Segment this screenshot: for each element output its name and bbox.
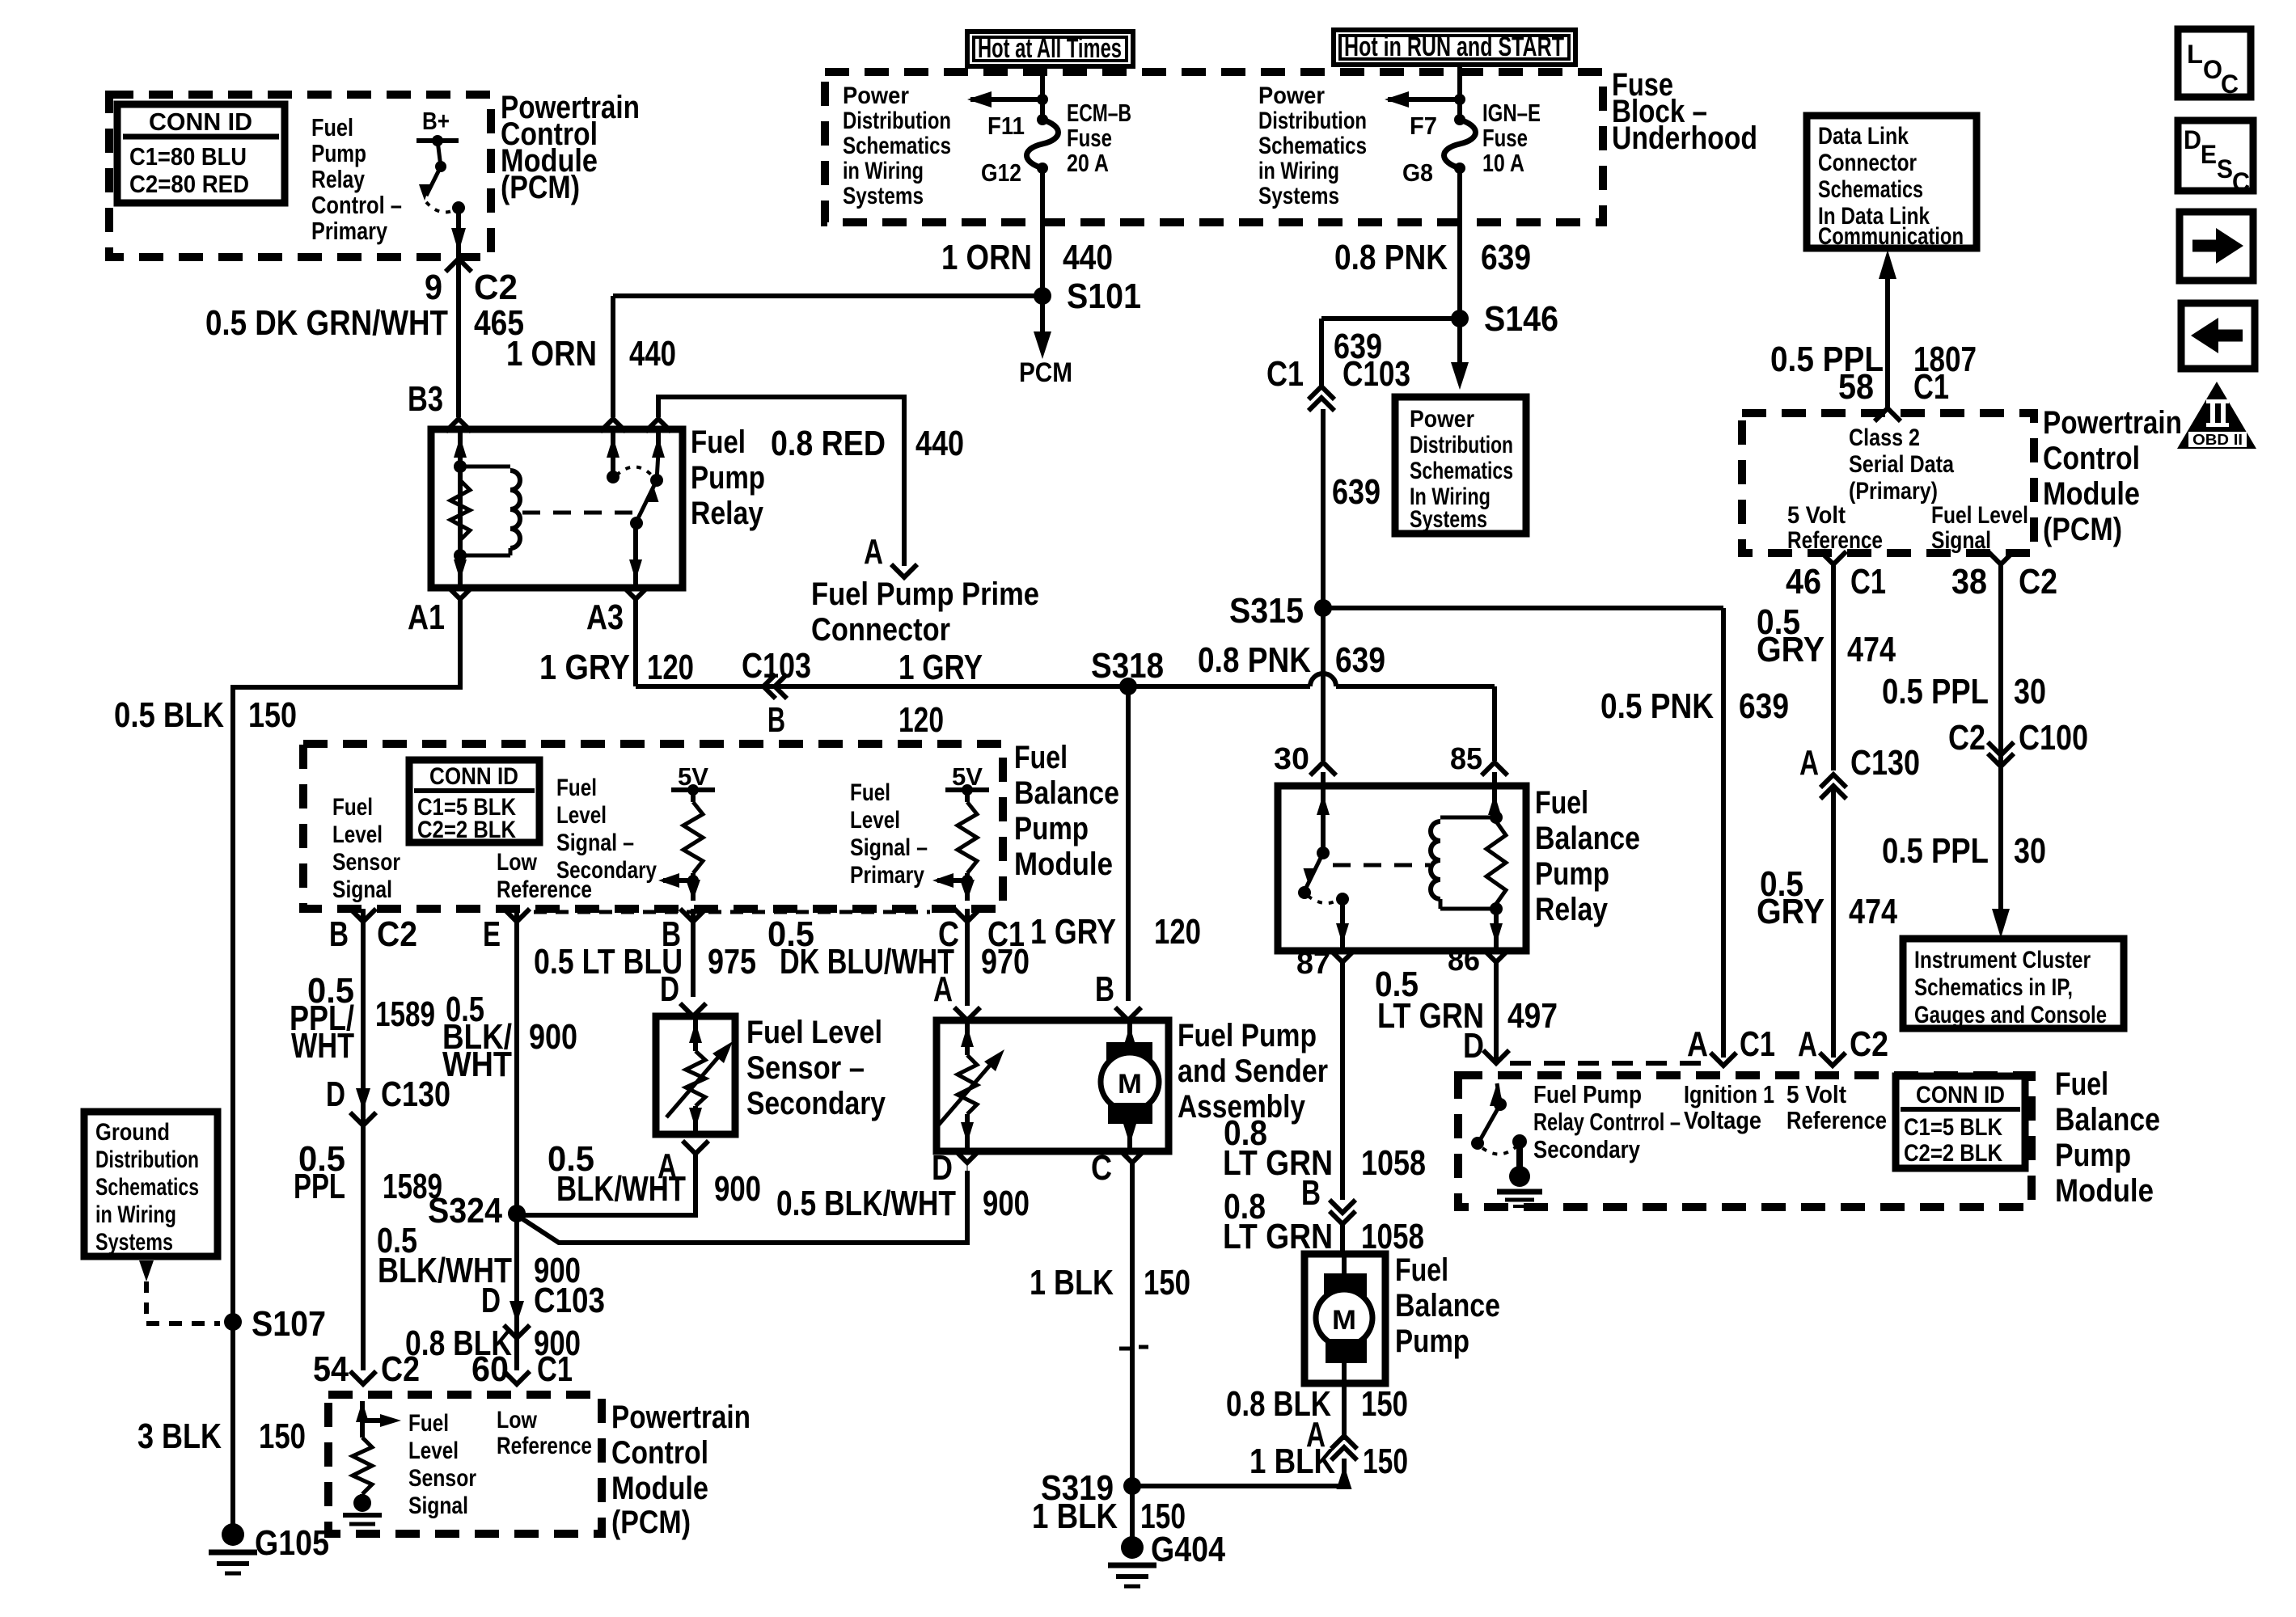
svg-text:Sensor –: Sensor – [746,1050,865,1086]
svg-text:D: D [2184,125,2201,154]
svg-text:O: O [2203,55,2222,84]
svg-text:3 BLK: 3 BLK [137,1416,222,1456]
balance relay pin 85 wire [1482,762,1507,775]
svg-text:D: D [1463,1026,1484,1066]
svg-text:DK BLU/WHT: DK BLU/WHT [780,942,954,982]
Ground Distribution Schematics reference box [84,1112,218,1256]
svg-text:(PCM): (PCM) [2043,512,2122,547]
svg-text:58: 58 [1838,367,1874,407]
wire A3 1 GRY 120 long horizontal [633,599,638,686]
balance relay switch [1317,794,1330,815]
svg-text:Distribution: Distribution [1410,432,1513,458]
svg-text:S146: S146 [1484,299,1558,339]
svg-text:Fuel Pump: Fuel Pump [1178,1018,1317,1053]
relay pin labels A1 A3 [447,586,473,599]
svg-text:C130: C130 [381,1074,450,1114]
svg-text:Control –: Control – [311,191,402,219]
svg-text:440: 440 [629,334,676,374]
right PCM dashed box [1742,413,2034,553]
svg-text:86: 86 [1448,944,1480,977]
svg-text:5 Volt: 5 Volt [1787,502,1846,529]
svg-text:150: 150 [259,1416,306,1456]
svg-text:D: D [932,1148,953,1188]
inline connector A on 150 wire [1331,1447,1357,1460]
svg-text:Reference: Reference [1787,527,1883,554]
svg-text:Primary: Primary [850,862,924,889]
svg-text:S: S [2217,154,2233,184]
wire 86 0.5 LT GRN 497 to module pin D [1494,962,1499,1062]
svg-text:B: B [1095,969,1114,1009]
wire S315 right to 0.5 PNK 639 drop [1323,606,1723,610]
sender C1 dashed boundary [534,910,930,914]
svg-text:474: 474 [1847,630,1896,669]
svg-text:900: 900 [983,1184,1030,1223]
svg-text:Reference: Reference [497,1433,592,1459]
svg-text:Power: Power [1410,406,1474,433]
svg-text:C100: C100 [2019,718,2088,758]
svg-text:A: A [1798,1024,1817,1064]
svg-text:Schematics: Schematics [1258,133,1367,159]
fuse ECM-B 20A [1037,114,1048,125]
module pin C C1 [965,909,970,1006]
svg-text:C: C [1091,1148,1112,1188]
svg-text:IGN–E: IGN–E [1482,99,1541,127]
svg-text:54: 54 [313,1349,349,1389]
svg-text:9: 9 [425,268,442,307]
DESC icon [2178,120,2253,191]
svg-text:Fuel: Fuel [1395,1252,1448,1288]
svg-text:1 ORN: 1 ORN [506,334,597,374]
svg-text:Signal –: Signal – [850,834,928,861]
svg-text:B: B [767,700,785,740]
svg-text:C103: C103 [1343,354,1410,394]
svg-text:D: D [481,1281,501,1320]
relay coil branch (pin B3 to A1) [458,429,463,588]
svg-text:C: C [2232,167,2250,196]
Fuel Balance Pump box [1304,1254,1385,1383]
svg-text:Relay Contrrol –: Relay Contrrol – [1533,1108,1681,1136]
svg-text:CONN ID: CONN ID [1916,1082,2005,1108]
svg-text:A: A [1799,743,1819,783]
svg-text:Pump: Pump [1014,811,1089,846]
svg-text:Fuel: Fuel [311,113,353,141]
svg-text:A1: A1 [408,597,445,637]
svg-text:1 GRY: 1 GRY [539,648,630,687]
wire S101 branch left to fuel pump relay [613,293,1042,298]
upper dashed boundary segment [1510,1061,1705,1066]
svg-text:G404: G404 [1151,1530,1225,1569]
svg-text:Relay: Relay [311,165,366,193]
svg-text:Level: Level [850,807,900,834]
wire A1 to 0.5 BLK 150 ground run [233,599,460,1317]
svg-text:GRY: GRY [1757,630,1825,669]
svg-text:Schematics in IP,: Schematics in IP, [1914,974,2073,1001]
svg-text:1 BLK: 1 BLK [1032,1497,1118,1536]
svg-text:F11: F11 [987,112,1025,140]
svg-text:150: 150 [1144,1263,1190,1302]
wire S146 branch left and down 639 [1321,316,1460,321]
wire S319 to fuel balance pump pin A [1132,1465,1344,1486]
back arrow icon [2181,303,2255,369]
svg-text:Low: Low [497,849,538,876]
svg-text:639: 639 [1335,640,1385,680]
svg-text:A: A [933,969,953,1009]
module pin E [514,909,519,1370]
svg-text:C130: C130 [1850,743,1920,783]
svg-text:S324: S324 [428,1191,502,1231]
svg-text:F7: F7 [1410,112,1437,140]
module pin B (975) [691,909,696,997]
svg-text:Fuse: Fuse [1482,124,1528,152]
connector C103 on BLK/WHT wire [510,1301,524,1324]
svg-text:Fuel Level: Fuel Level [1931,502,2028,529]
svg-text:Voltage: Voltage [1684,1106,1761,1134]
svg-text:Gauges and Console: Gauges and Console [1914,1002,2107,1028]
node S318 [1119,678,1137,695]
svg-text:900: 900 [529,1017,577,1057]
arrow into instrument cluster box [1992,909,2010,938]
svg-text:Fuel: Fuel [691,424,746,460]
wire PCM switch to pin 9 C2 [456,208,461,255]
svg-text:1589: 1589 [375,994,435,1034]
svg-text:1 GRY: 1 GRY [899,648,983,687]
svg-text:Class 2: Class 2 [1849,424,1920,451]
svg-text:CONN ID: CONN ID [149,108,252,136]
svg-text:Pump: Pump [1535,856,1609,892]
svg-text:S107: S107 [252,1304,326,1344]
Power Distribution Schematics In Wiring Systems reference box [1395,397,1526,534]
svg-text:B: B [1301,1173,1321,1213]
svg-text:and Sender: and Sender [1178,1053,1328,1089]
svg-text:Control: Control [2043,441,2140,476]
node S315 [1314,599,1332,617]
svg-text:C2=2 BLK: C2=2 BLK [1904,1140,2002,1167]
svg-text:0.8 PNK: 0.8 PNK [1334,238,1448,277]
svg-text:C1: C1 [1266,354,1304,394]
svg-text:120: 120 [1154,912,1201,952]
svg-text:(PCM): (PCM) [611,1505,691,1540]
svg-text:639: 639 [1332,472,1381,512]
svg-text:E: E [483,914,501,954]
node B3 connector [446,419,471,432]
balance relay pin 30 wire and chevron [1310,762,1336,775]
svg-text:D: D [326,1074,345,1114]
svg-text:D: D [660,969,679,1009]
wire 87 0.8 LT GRN 1058 to fuel balance pump [1340,962,1345,1200]
svg-text:150: 150 [248,695,297,735]
module secondary relay control switch [1490,1083,1504,1106]
svg-text:Pump: Pump [311,139,366,167]
svg-text:A3: A3 [586,597,624,637]
svg-text:1 BLK: 1 BLK [1030,1263,1114,1302]
svg-text:L: L [2187,40,2203,69]
svg-text:C2: C2 [377,914,417,954]
svg-text:1 ORN: 1 ORN [941,238,1032,277]
wire 0.5 PPL 30 fuel level signal [1998,564,2003,914]
svg-text:PPL: PPL [294,1167,345,1206]
svg-text:Primary: Primary [311,217,388,245]
svg-text:in Wiring: in Wiring [843,158,924,184]
LOC icon [2178,29,2251,97]
svg-text:S101: S101 [1067,277,1141,316]
svg-text:(PCM): (PCM) [501,170,580,205]
svg-text:Systems: Systems [1258,183,1339,209]
wire 0.5 GRY 474 [1831,564,1836,771]
svg-text:0.8 PNK: 0.8 PNK [1198,640,1311,680]
svg-text:Balance: Balance [1014,775,1119,811]
fuse block dashed box [825,72,1603,222]
svg-text:Communication: Communication [1818,223,1964,250]
Hot at All Times box [967,32,1133,66]
wire fuse IGN-E down to S146 0.8 PNK 639 [1457,168,1462,319]
svg-text:Fuel: Fuel [850,779,890,806]
svg-text:ECM–B: ECM–B [1067,99,1131,127]
svg-text:Control: Control [611,1435,708,1471]
svg-text:Fuel: Fuel [408,1410,449,1437]
svg-text:0.5 PNK: 0.5 PNK [1600,686,1714,726]
fuel pump motor M [1127,1020,1132,1044]
svg-text:C1: C1 [1913,367,1949,407]
svg-text:Balance: Balance [1395,1288,1500,1324]
svg-text:440: 440 [915,424,964,463]
svg-text:G8: G8 [1402,158,1433,187]
svg-text:Connector: Connector [1818,150,1917,176]
svg-text:Level: Level [408,1438,459,1464]
svg-text:Systems: Systems [1410,506,1487,533]
svg-text:C2=80 RED: C2=80 RED [129,170,249,198]
svg-text:E: E [2201,140,2217,169]
svg-text:Fuel Level: Fuel Level [746,1015,882,1050]
wire S318 down to fuel pump sender pin B [1126,686,1131,1001]
svg-text:B+: B+ [422,107,450,135]
wire 465 0.5 DK GRN/WHT [456,259,461,417]
svg-text:Fuel: Fuel [1014,740,1068,775]
svg-text:Pump: Pump [1395,1324,1469,1359]
wire 639 from C103 down to S315 [1321,409,1326,608]
svg-text:C1=5 BLK: C1=5 BLK [1904,1114,2002,1141]
svg-text:Module: Module [2043,476,2140,512]
wire 0.8 BLK 150 below balance pump [1342,1383,1347,1440]
svg-text:Module: Module [2055,1173,2154,1209]
node S319 [1123,1477,1141,1495]
svg-text:1 GRY: 1 GRY [1030,912,1116,952]
svg-text:639: 639 [1481,238,1531,277]
svg-text:C2=2 BLK: C2=2 BLK [417,817,516,843]
svg-text:Fuel: Fuel [1535,785,1588,821]
relay switch branch (pins 1 ORN / 0.8 RED to A3) [611,429,615,473]
node S101 [1034,287,1051,305]
svg-text:C103: C103 [534,1281,605,1320]
svg-text:Distribution: Distribution [1258,108,1367,134]
svg-text:A: A [658,1146,677,1186]
svg-text:60: 60 [471,1349,509,1389]
svg-text:150: 150 [1363,1442,1408,1481]
OBD II triangle icon [2177,382,2256,449]
wire 0.8 RED 440 to fuel pump prime connector [658,397,904,566]
svg-text:C103: C103 [742,646,811,686]
svg-text:Fuse: Fuse [1067,124,1112,152]
bottom PCM dashed box [328,1395,602,1534]
svg-text:970: 970 [981,942,1030,982]
svg-text:GRY: GRY [1757,892,1825,931]
svg-text:in Wiring: in Wiring [95,1201,176,1228]
svg-text:Schematics: Schematics [1818,176,1923,203]
fuse IGN-E 10A [1454,114,1465,125]
svg-text:Schematics: Schematics [1410,458,1513,484]
svg-text:497: 497 [1507,996,1558,1036]
svg-text:Distribution: Distribution [843,108,951,134]
svg-text:C1: C1 [1850,562,1886,602]
svg-text:0.5 BLK/WHT: 0.5 BLK/WHT [776,1184,956,1223]
svg-text:Instrument Cluster: Instrument Cluster [1914,947,2091,973]
svg-text:Signal: Signal [332,876,392,903]
svg-text:Power: Power [843,82,909,109]
svg-text:Signal –: Signal – [556,830,634,856]
svg-text:87: 87 [1296,947,1330,981]
svg-text:WHT: WHT [291,1026,354,1066]
variable resistor fuel level sensor primary [965,1020,970,1055]
svg-text:Powertrain: Powertrain [2043,405,2182,441]
Hot in RUN and START box [1334,30,1575,65]
svg-text:46: 46 [1786,562,1821,602]
svg-text:0.5 PPL: 0.5 PPL [1882,831,1989,871]
svg-text:PCM: PCM [1019,357,1072,388]
svg-text:CONN ID: CONN ID [429,763,518,790]
svg-text:WHT: WHT [442,1045,512,1084]
svg-text:900: 900 [714,1169,761,1209]
svg-text:B: B [329,914,349,954]
svg-text:Underhood: Underhood [1612,120,1757,156]
svg-text:38: 38 [1951,562,1987,602]
node S324 [508,1205,526,1222]
svg-text:M: M [1332,1305,1356,1336]
svg-text:Ground: Ground [95,1119,170,1146]
arrow S146 down to power distribution box [1457,319,1462,364]
svg-text:(Primary): (Primary) [1849,478,1938,505]
Data Link Connector Schematics box [1807,116,1977,248]
relay coil inductor parallel branch [460,465,510,469]
Fuel Pump Relay box [431,429,683,588]
svg-text:Sensor: Sensor [408,1465,476,1492]
wire S319 to ground G404 [1130,1486,1135,1541]
wire from Hot in RUN and START into fuse F7 [1457,65,1462,120]
svg-text:Signal: Signal [408,1492,468,1519]
Fuel Balance Pump Relay box [1278,786,1526,951]
svg-text:B3: B3 [408,379,443,419]
svg-text:Balance: Balance [2055,1102,2160,1138]
variable resistor secondary sensor [693,1016,698,1051]
svg-text:Systems: Systems [95,1229,173,1256]
dashed link ground distribution to S107 [139,1260,154,1281]
svg-text:Low: Low [497,1407,538,1433]
svg-text:Powertrain: Powertrain [611,1400,751,1435]
svg-text:85: 85 [1450,742,1482,776]
inline connector B on 1058 wire [1330,1200,1355,1213]
module (bottom right) CONN ID table [1896,1076,2025,1168]
svg-text:Distribution: Distribution [95,1146,199,1173]
svg-text:Systems: Systems [843,183,924,209]
svg-text:Power: Power [1258,82,1325,109]
svg-text:C1: C1 [537,1349,573,1389]
svg-text:120: 120 [647,648,694,687]
svg-text:in Wiring: in Wiring [1258,158,1339,184]
arrow S101 down to PCM [1040,296,1045,333]
connector C103 inline on 639 wire [1309,398,1334,411]
Instrument Cluster Schematics box [1903,939,2124,1028]
balance relay pins 87 86 [1330,949,1355,962]
svg-text:Secondary: Secondary [556,857,657,884]
Fuel Pump and Sender Assembly box [937,1020,1169,1151]
svg-text:Fuel Pump Prime: Fuel Pump Prime [811,576,1039,612]
svg-text:30: 30 [2014,672,2046,711]
svg-text:Level: Level [556,802,607,829]
svg-text:Connector: Connector [811,612,950,648]
wire S324 diagonal to sender pin D [517,1171,967,1243]
svg-text:1058: 1058 [1361,1143,1426,1183]
CONN ID table (module C1=5 BLK / C2=2 BLK) [409,760,539,842]
wire 3 BLK 150 to G105 [230,1322,235,1532]
svg-text:A: A [864,532,883,572]
wire fuse ECM-B down to S101 [1040,168,1045,296]
svg-text:C1: C1 [1740,1024,1775,1064]
svg-text:C2: C2 [1850,1024,1888,1064]
relay internal dashed link [522,511,633,515]
svg-text:M: M [1118,1069,1142,1100]
ground G105 [222,1523,244,1546]
svg-text:20 A: 20 A [1067,149,1109,177]
svg-text:0.5 PPL: 0.5 PPL [1882,672,1989,711]
Fuel Level Sensor - Secondary box [656,1016,735,1134]
svg-text:Fuel Pump: Fuel Pump [1533,1080,1642,1108]
svg-text:C1=80 BLU: C1=80 BLU [129,142,247,171]
svg-text:Level: Level [332,821,383,848]
svg-text:440: 440 [1063,238,1113,277]
svg-text:Data Link: Data Link [1818,123,1909,150]
balance relay internal dashed link [1333,863,1430,868]
svg-text:Hot in RUN and START: Hot in RUN and START [1344,32,1564,62]
svg-text:S318: S318 [1091,646,1164,686]
svg-text:Serial Data: Serial Data [1849,451,1954,478]
svg-text:Module: Module [1014,846,1113,882]
stray dash marks [1119,1347,1131,1351]
svg-text:C2: C2 [1948,718,1985,758]
wire from Hot at All Times into fuse F11 [1040,66,1045,120]
forward arrow icon [2180,212,2253,281]
svg-text:Balance: Balance [1535,821,1640,856]
ground G404 [1121,1536,1144,1559]
svg-text:Fuel: Fuel [332,794,373,821]
bottom right Fuel Balance Pump Module dashed box [1458,1075,2032,1207]
svg-text:Schematics: Schematics [95,1174,199,1201]
svg-text:30: 30 [1274,742,1309,776]
svg-text:C2: C2 [474,268,518,307]
svg-text:Pump: Pump [691,460,765,496]
svg-text:10 A: 10 A [1482,149,1524,177]
svg-text:Fuel: Fuel [556,775,597,801]
svg-text:Module: Module [611,1471,708,1506]
svg-text:Hot at All Times: Hot at All Times [978,33,1122,64]
svg-text:120: 120 [899,700,944,740]
Fuel Balance Pump Module dashed box (left) [303,744,1003,909]
PCM internal fuel level sensor signal resistor [360,1401,365,1438]
svg-text:A: A [1306,1415,1326,1454]
top-left PCM dashed box [109,95,491,257]
svg-text:0.5 DK GRN/WHT: 0.5 DK GRN/WHT [205,303,448,343]
svg-text:Schematics: Schematics [843,133,951,159]
fuel balance pump motor M [1342,1254,1347,1275]
svg-text:Secondary: Secondary [746,1086,886,1121]
node S107 [224,1313,242,1331]
